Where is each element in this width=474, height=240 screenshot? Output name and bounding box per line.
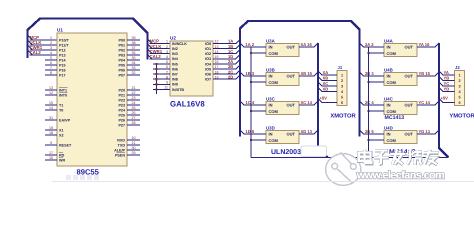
bus entry 2B 3 xyxy=(360,72,364,76)
junction xyxy=(367,139,369,141)
junction xyxy=(155,68,157,70)
junction xyxy=(367,52,369,54)
wire net YD to J2 xyxy=(443,91,455,93)
svg-text:13: 13 xyxy=(215,45,219,49)
U1 pin 29 PSEN xyxy=(127,154,140,156)
wire U4D OUT net YD xyxy=(417,133,435,135)
svg-text:IN: IN xyxy=(269,45,273,50)
U1 pin 32 P07 xyxy=(127,74,140,76)
svg-text:3: 3 xyxy=(458,84,460,88)
svg-text:XB: XB xyxy=(323,76,329,81)
wire U4A COM to +5V chain xyxy=(369,52,385,54)
svg-text:18: 18 xyxy=(49,131,53,135)
svg-text:P12: P12 xyxy=(59,48,66,52)
svg-text:YA: YA xyxy=(444,70,449,75)
svg-text:IN9: IN9 xyxy=(172,83,178,87)
svg-text:3: 3 xyxy=(166,50,168,54)
svg-text:MC1413: MC1413 xyxy=(385,115,405,121)
svg-text:P21: P21 xyxy=(118,93,125,97)
wire net 2C 4 to U4C IN xyxy=(363,104,384,106)
U1 pin 38 P01 xyxy=(127,44,140,46)
svg-text:2D: 2D xyxy=(228,74,233,79)
bus entry xyxy=(439,87,443,91)
bus B3 X-motor phases xyxy=(318,43,328,158)
U2 pin 13 IO1 wire net 1B xyxy=(213,48,236,50)
svg-text:IN: IN xyxy=(387,132,391,137)
U1 pin 19 X1 xyxy=(45,129,57,131)
svg-text:U3D: U3D xyxy=(266,126,275,131)
svg-text:3: 3 xyxy=(50,46,52,50)
U1 pin 14 T0 xyxy=(45,109,57,111)
svg-text:OUT: OUT xyxy=(405,103,414,108)
wire net 1C 4 to U3C IN xyxy=(244,104,267,106)
wire net +5V to J1 xyxy=(322,102,338,104)
svg-text:1: 1 xyxy=(50,36,52,40)
svg-text:COM: COM xyxy=(387,138,397,143)
svg-text:P10/T: P10/T xyxy=(59,38,70,42)
bus entry xyxy=(435,130,439,134)
wire net XD to J1 xyxy=(322,91,338,93)
svg-text:16: 16 xyxy=(49,156,53,160)
svg-text:19: 19 xyxy=(215,75,219,79)
svg-text:31: 31 xyxy=(49,116,53,120)
bus entry xyxy=(318,82,322,86)
svg-text:3: 3 xyxy=(341,84,343,88)
U1 pin 13 INT1 xyxy=(45,89,57,91)
svg-text:2D 5: 2D 5 xyxy=(365,129,374,134)
svg-text:XD: XD xyxy=(323,87,329,92)
svg-text:2C 4: 2C 4 xyxy=(365,100,374,105)
junction xyxy=(155,63,157,65)
svg-text:IO5: IO5 xyxy=(205,67,211,71)
bus entry right MCP xyxy=(148,39,153,44)
U1 pin 33 P06 xyxy=(127,69,140,71)
wire net 1B 3 to U3B IN xyxy=(244,75,267,77)
svg-text:2: 2 xyxy=(50,41,52,45)
svg-text:ALE/P: ALE/P xyxy=(114,148,125,152)
U2 pin 8 IN8 xyxy=(153,78,170,80)
svg-text:30: 30 xyxy=(132,146,136,150)
svg-text:4: 4 xyxy=(166,55,168,59)
svg-text:IO6: IO6 xyxy=(205,73,211,77)
svg-text:IN: IN xyxy=(387,74,391,79)
svg-text:OUT: OUT xyxy=(405,132,414,137)
svg-text:17: 17 xyxy=(49,151,53,155)
bus entry xyxy=(435,72,439,76)
svg-text:U3B: U3B xyxy=(266,68,275,73)
svg-text:+5V: +5V xyxy=(320,95,328,100)
svg-text:IN: IN xyxy=(269,103,273,108)
junction xyxy=(155,78,157,80)
svg-text:IN3: IN3 xyxy=(172,52,178,56)
svg-text:U4D: U4D xyxy=(384,126,393,131)
svg-text:P17: P17 xyxy=(59,73,66,77)
U1 pin 23 P22 xyxy=(127,99,140,101)
wire net MCP to U2 pin 1 xyxy=(150,43,171,45)
svg-text:OUT: OUT xyxy=(405,74,414,79)
driver U3A body xyxy=(266,44,299,57)
svg-text:IN/NCLK: IN/NCLK xyxy=(172,42,187,46)
U2 pin 12 IO0 wire net 1A xyxy=(213,43,236,45)
bus entry xyxy=(314,43,318,47)
U2 pin 14 IO2 wire net 1C xyxy=(213,53,236,55)
wire U4A OUT net YA xyxy=(417,46,435,48)
svg-text:1: 1 xyxy=(458,73,460,77)
svg-text:YB 15: YB 15 xyxy=(419,71,431,76)
svg-text:P04: P04 xyxy=(118,58,126,62)
U1 pin 25 P24 xyxy=(127,109,140,111)
svg-text:U3A: U3A xyxy=(266,39,276,44)
svg-text:ULN2003: ULN2003 xyxy=(271,149,301,156)
U1 pin 10 RXD xyxy=(127,139,140,141)
svg-text:IN/STB: IN/STB xyxy=(172,88,184,92)
wire net CAL2 to U1 pin 4 xyxy=(30,54,58,56)
wire +5V COM rail xyxy=(251,157,449,159)
U1 pin 6 P15 xyxy=(45,64,57,66)
svg-text:29: 29 xyxy=(132,151,136,155)
bus entry left CAL2 xyxy=(28,51,33,56)
svg-text:P24: P24 xyxy=(118,108,126,112)
U1 pin 24 P23 xyxy=(127,104,140,106)
wire net XA to J1 xyxy=(322,74,338,76)
svg-text:11: 11 xyxy=(132,141,136,145)
wire U3B OUT net XB xyxy=(299,75,314,77)
wire net YB to J2 xyxy=(443,80,455,82)
svg-text:19: 19 xyxy=(49,126,53,130)
svg-text:IN4: IN4 xyxy=(172,57,179,61)
svg-text:23: 23 xyxy=(132,96,136,100)
bus entry left CWR1 xyxy=(28,46,33,51)
svg-text:IN: IN xyxy=(387,103,391,108)
wire net CWR1 to U2 pin 3 xyxy=(150,53,171,55)
svg-text:2: 2 xyxy=(458,79,460,83)
svg-text:OUT: OUT xyxy=(287,132,296,137)
svg-text:X2: X2 xyxy=(59,133,64,137)
decorative watermark xyxy=(301,146,361,186)
svg-text:P25: P25 xyxy=(118,113,125,117)
svg-text:P05: P05 xyxy=(118,63,125,67)
svg-text:4: 4 xyxy=(50,51,52,55)
bus entry xyxy=(236,55,240,59)
U2 pin 6 IN6 xyxy=(153,68,170,70)
svg-text:27: 27 xyxy=(132,116,136,120)
junction xyxy=(250,110,252,112)
bus entry xyxy=(236,60,240,64)
pld U2 GAL16V8 body xyxy=(170,41,213,96)
svg-text:YB: YB xyxy=(444,76,450,81)
svg-text:P11/T: P11/T xyxy=(59,43,69,47)
svg-text:2: 2 xyxy=(341,79,343,83)
wire net YC to J2 xyxy=(443,85,455,87)
bus entry left UCLK xyxy=(28,41,33,46)
connector J2 body xyxy=(455,71,465,106)
svg-text:10: 10 xyxy=(132,136,136,140)
svg-text:15: 15 xyxy=(49,101,53,105)
svg-text:28: 28 xyxy=(132,121,136,125)
svg-text:12: 12 xyxy=(215,40,219,44)
U1 pin 18 X2 xyxy=(45,134,57,136)
junction xyxy=(367,110,369,112)
svg-text:WR: WR xyxy=(59,158,65,162)
wire net 1A 2 to U3A IN xyxy=(244,46,267,48)
svg-text:IN5: IN5 xyxy=(172,62,178,66)
bus entry xyxy=(439,76,443,80)
U1 pin 37 P02 xyxy=(127,49,140,51)
footer rule xyxy=(52,181,474,183)
U1 pin 11 TXD xyxy=(127,144,140,146)
wire net 2A 2 to U4A IN xyxy=(363,46,384,48)
svg-text:IN7: IN7 xyxy=(172,73,178,77)
svg-text:IO7: IO7 xyxy=(205,78,211,82)
wire U3A OUT net XA xyxy=(299,46,314,48)
svg-text:6: 6 xyxy=(50,61,52,65)
U1 pin 28 P27 xyxy=(127,124,140,126)
svg-text:IN: IN xyxy=(387,45,391,50)
bus entry xyxy=(439,98,443,102)
U1 pin 21 P20 xyxy=(127,89,140,91)
bus entry xyxy=(236,75,240,79)
svg-text:P06: P06 xyxy=(118,68,125,72)
svg-text:IO4: IO4 xyxy=(205,62,212,66)
svg-text:22: 22 xyxy=(132,91,136,95)
bus entry xyxy=(314,72,318,76)
svg-text:P22: P22 xyxy=(118,98,125,102)
svg-text:IO1: IO1 xyxy=(205,47,211,51)
wire U4D COM to +5V chain xyxy=(369,139,385,141)
svg-text:6: 6 xyxy=(458,101,460,105)
driver U4D body xyxy=(384,131,417,144)
svg-text:11: 11 xyxy=(164,86,168,90)
U2 pin 9 IN9 xyxy=(153,83,170,85)
bus entry xyxy=(314,101,318,105)
wire U3C COM to +5V chain xyxy=(251,110,266,112)
svg-text:YA 16: YA 16 xyxy=(419,42,431,47)
svg-text:18: 18 xyxy=(215,70,219,74)
U1 pin 7 P16 xyxy=(45,69,57,71)
svg-text:COM: COM xyxy=(269,138,279,143)
svg-text:1A 2: 1A 2 xyxy=(246,42,255,47)
bus entry xyxy=(435,101,439,105)
svg-text:YD 13: YD 13 xyxy=(419,129,431,134)
svg-text:XA: XA xyxy=(323,70,329,75)
svg-text:U3C: U3C xyxy=(266,97,276,102)
svg-text:39: 39 xyxy=(132,36,136,40)
bus entry xyxy=(439,82,443,86)
bus entry xyxy=(318,71,322,75)
U1 pin 17 RD xyxy=(45,154,57,156)
wire net 1D 5 to U3D IN xyxy=(244,133,267,135)
svg-text:1C 4: 1C 4 xyxy=(246,100,255,105)
driver U3D body xyxy=(266,131,299,144)
svg-text:6: 6 xyxy=(341,101,343,105)
bus entry 1D 5 xyxy=(240,130,244,134)
svg-text:IN8: IN8 xyxy=(172,78,178,82)
svg-text:GAL16V8: GAL16V8 xyxy=(170,99,205,108)
svg-text:COM: COM xyxy=(269,80,279,85)
svg-text:RXD: RXD xyxy=(117,138,125,142)
wire U4B OUT net YB xyxy=(417,75,435,77)
driver U4B body xyxy=(384,73,417,86)
bus entry right CAL2 xyxy=(148,54,153,59)
svg-text:34: 34 xyxy=(132,61,136,65)
svg-text:YD: YD xyxy=(444,87,450,92)
svg-text:RD: RD xyxy=(59,153,65,157)
wire COM chain U4 xyxy=(368,53,370,158)
wire net UCLK to U1 pin 2 xyxy=(30,44,58,46)
wire U4B COM to +5V chain xyxy=(369,81,385,83)
bus entry 1C 4 xyxy=(240,101,244,105)
svg-text:2: 2 xyxy=(166,45,168,49)
bus entry xyxy=(318,98,322,102)
svg-text:P23: P23 xyxy=(118,103,125,107)
svg-text:P14: P14 xyxy=(59,58,67,62)
svg-text:YMOTOR: YMOTOR xyxy=(449,113,474,120)
U1 pin 16 WR xyxy=(45,159,57,161)
svg-text:P26: P26 xyxy=(118,118,125,122)
svg-text:1: 1 xyxy=(341,73,343,77)
svg-text:IN2: IN2 xyxy=(172,47,178,51)
svg-text:P00: P00 xyxy=(118,38,125,42)
U2 pin 19 IO7 wire net 2D xyxy=(213,78,236,80)
svg-text:9: 9 xyxy=(50,141,52,145)
U1 pin 9 RESET xyxy=(45,144,57,146)
bus entry xyxy=(236,44,240,48)
svg-text:1D 5: 1D 5 xyxy=(246,129,255,134)
driver U4C body xyxy=(384,102,417,115)
unused-input tie rail for U2 pins 5-11 xyxy=(156,64,158,94)
svg-text:X1: X1 xyxy=(59,128,64,132)
bus entry 1B 3 xyxy=(240,72,244,76)
svg-text:U4A: U4A xyxy=(384,39,394,44)
U1 pin 12 INT0 xyxy=(45,94,57,96)
svg-text:25: 25 xyxy=(132,106,136,110)
U2 pin 16 IO4 wire net 2A xyxy=(213,63,236,65)
svg-text:24: 24 xyxy=(132,101,136,105)
stub above COM xyxy=(368,47,370,53)
svg-text:14: 14 xyxy=(49,106,53,110)
svg-text:COM: COM xyxy=(387,80,397,85)
svg-text:RESET: RESET xyxy=(59,143,72,147)
svg-text:5: 5 xyxy=(50,56,52,60)
svg-text:1: 1 xyxy=(166,40,168,44)
svg-text:IN: IN xyxy=(269,74,273,79)
wire U3B COM to +5V chain xyxy=(251,81,266,83)
bus entry xyxy=(314,130,318,134)
svg-text:U4C: U4C xyxy=(384,97,394,102)
svg-text:35: 35 xyxy=(132,56,136,60)
svg-text:XC 14: XC 14 xyxy=(301,100,313,105)
svg-text:COM: COM xyxy=(269,109,279,114)
svg-text:17: 17 xyxy=(215,65,219,69)
bus entry left MCP xyxy=(28,36,33,41)
svg-text:P27: P27 xyxy=(118,123,125,127)
svg-text:5: 5 xyxy=(166,60,168,64)
svg-text:36: 36 xyxy=(132,51,136,55)
wire net XB to J1 xyxy=(322,80,338,82)
svg-text:T1: T1 xyxy=(59,103,63,107)
svg-text:14: 14 xyxy=(215,50,219,54)
svg-text:T0: T0 xyxy=(59,108,63,112)
faint ghost watermark remnant xyxy=(66,175,99,180)
svg-text:21: 21 xyxy=(132,86,136,90)
bus entry 2D 5 xyxy=(360,130,364,134)
svg-text:COM: COM xyxy=(387,109,397,114)
junction xyxy=(155,88,157,90)
svg-text:12: 12 xyxy=(49,91,53,95)
U1 pin 30 ALE/P xyxy=(127,149,140,151)
mcu U1 89C55 body xyxy=(57,33,127,166)
svg-text:J1: J1 xyxy=(338,65,343,70)
svg-text:U1: U1 xyxy=(57,28,63,33)
bus B1 P1.0-P1.3 nets arc over U1 xyxy=(28,19,148,60)
bus entry xyxy=(236,39,240,43)
svg-text:U4B: U4B xyxy=(384,68,393,73)
svg-text:XD 13: XD 13 xyxy=(301,129,313,134)
svg-text:IO3: IO3 xyxy=(205,57,211,61)
svg-text:OUT: OUT xyxy=(287,74,296,79)
U1 pin 35 P04 xyxy=(127,59,140,61)
U2 pin 5 IN5 xyxy=(153,63,170,65)
U1 pin 8 P17 xyxy=(45,74,57,76)
bus entry 2A 2 xyxy=(360,43,364,47)
junction xyxy=(250,139,252,141)
bus entry right UCLK xyxy=(148,44,153,49)
svg-text:XC: XC xyxy=(323,81,329,86)
svg-text:13: 13 xyxy=(49,86,53,90)
svg-text:P16: P16 xyxy=(59,68,66,72)
wire net 2D 5 to U4D IN xyxy=(363,133,384,135)
wire net CAL2 to U2 pin 4 xyxy=(150,58,171,60)
wire U4C OUT net YC xyxy=(417,104,435,106)
wire U3C OUT net XC xyxy=(299,104,314,106)
svg-text:OUT: OUT xyxy=(287,103,296,108)
svg-text:XA 16: XA 16 xyxy=(301,42,313,47)
svg-text:5: 5 xyxy=(341,95,343,99)
svg-text:INT1: INT1 xyxy=(59,88,67,92)
U2 pin 11 IN/STB xyxy=(153,88,170,90)
bus entry xyxy=(435,43,439,47)
svg-text:6: 6 xyxy=(166,65,168,69)
U1 pin 31 EA/VP xyxy=(45,119,57,121)
bus entry xyxy=(439,71,443,75)
svg-text:COM: COM xyxy=(387,51,397,56)
junction xyxy=(155,83,157,85)
U1 pin 34 P05 xyxy=(127,64,140,66)
svg-text:8: 8 xyxy=(50,71,52,75)
svg-text:32: 32 xyxy=(132,71,136,75)
svg-text:2B 3: 2B 3 xyxy=(365,71,374,76)
svg-text:XMOTOR: XMOTOR xyxy=(330,113,356,120)
svg-text:OUT: OUT xyxy=(405,45,414,50)
svg-text:P03: P03 xyxy=(118,53,125,57)
bus entry right CWR1 xyxy=(148,49,153,54)
svg-text:+5V: +5V xyxy=(441,95,449,100)
junction xyxy=(155,73,157,75)
wire net +5V to J2 xyxy=(443,102,455,104)
svg-text:EA/VP: EA/VP xyxy=(59,118,71,122)
U1 pin 26 P25 xyxy=(127,114,140,116)
svg-text:CAL2: CAL2 xyxy=(30,50,42,55)
wire net XC to J1 xyxy=(322,85,338,87)
U2 pin 17 IO5 wire net 2B xyxy=(213,68,236,70)
svg-text:P07: P07 xyxy=(118,73,125,77)
svg-text:IN6: IN6 xyxy=(172,67,178,71)
svg-text:5: 5 xyxy=(458,95,460,99)
bus entry xyxy=(318,76,322,80)
svg-text:9: 9 xyxy=(166,81,168,85)
U1 pin 39 P00 xyxy=(127,39,140,41)
wire COM chain U3 xyxy=(250,53,252,158)
